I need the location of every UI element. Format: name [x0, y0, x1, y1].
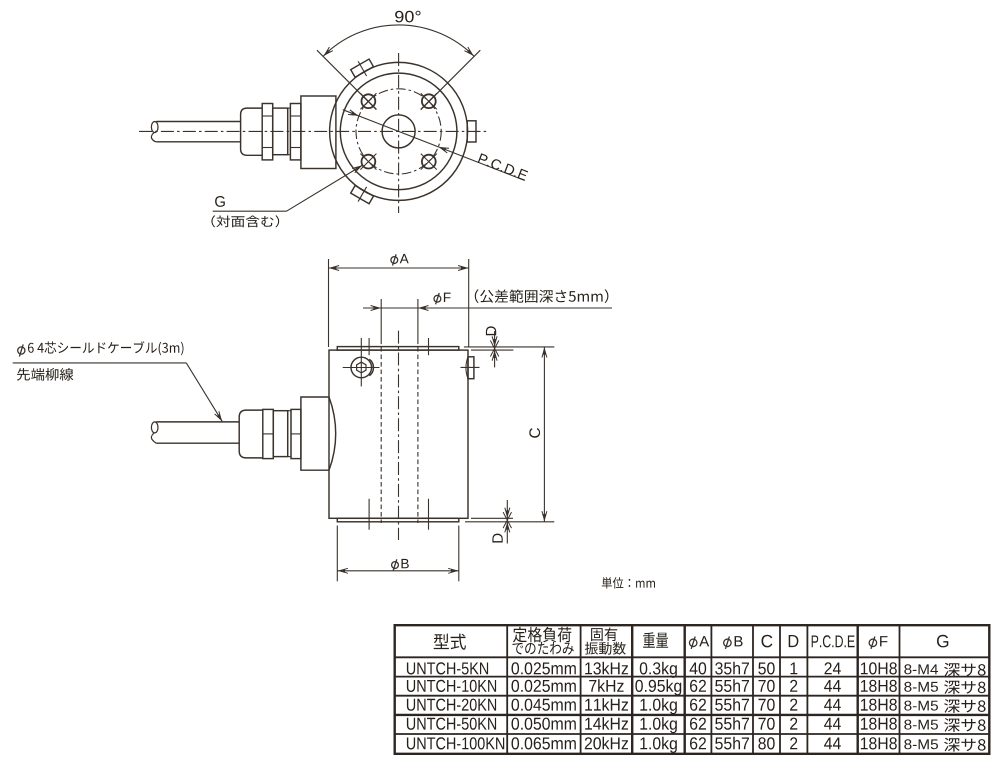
- bolt hole B3: [362, 155, 376, 169]
- dim C arrowheads: [542, 347, 546, 355]
- dim D top vertical line: [494, 331, 496, 347]
- right rim tab: [467, 121, 476, 142]
- screw hex socket: [357, 362, 366, 373]
- cable label leader: [13, 362, 187, 364]
- gland sleeve (side view): [273, 411, 287, 457]
- dim phiA line: [329, 267, 469, 269]
- gland hex nut B (top view): [290, 104, 301, 160]
- gland ring (top view): [288, 108, 291, 155]
- gland boss (top view): [301, 96, 336, 169]
- screw crosshairs: [343, 367, 380, 369]
- rim tab at 120 deg: [349, 56, 376, 81]
- side view of load cell: [13, 254, 655, 589]
- table row UNTCH-10KN: [407, 680, 496, 692]
- label C: [529, 428, 540, 438]
- gland hex nut A (side view): [263, 409, 274, 458]
- dim phiB extension lines: [336, 526, 338, 582]
- label (taimen fukumu): [211, 215, 279, 227]
- P.C.D.E arrowhead upper-left (points inward): [351, 111, 359, 116]
- label P.C.D.E: [478, 153, 529, 181]
- label sentan (bare wire ends): [17, 368, 74, 381]
- bolt hole tick marks top: [368, 338, 370, 355]
- cable broken end (top view): [151, 122, 158, 133]
- dim C line: [543, 347, 545, 522]
- table row UNTCH-50KN: [407, 718, 496, 730]
- rim tab at 240 deg: [349, 182, 376, 207]
- specification table: [394, 625, 991, 754]
- P.C.D.E arrowhead lower-right (points inward): [438, 147, 446, 152]
- 90deg dimension line left (through upper-left bolt): [317, 50, 377, 109]
- gland hex nut B (side view): [291, 409, 301, 458]
- bolt hole B2: [422, 94, 436, 108]
- cap screw head: [351, 357, 372, 378]
- dim D bottom extension lines: [471, 517, 513, 519]
- table headers: [434, 634, 466, 650]
- top view: flange face of load cell: [139, 11, 528, 228]
- note unit mm: [602, 577, 655, 589]
- center hole hidden lines: [380, 340, 382, 524]
- vertical centerline: [398, 53, 400, 213]
- label G: [215, 196, 225, 207]
- horizontal centerline: [139, 130, 487, 132]
- arc arrowhead left: [323, 49, 330, 56]
- dim D bottom vertical line: [506, 500, 508, 518]
- label D bottom: [492, 534, 502, 543]
- tab centerline: [461, 366, 480, 368]
- dim phiB arrowheads: [337, 569, 345, 573]
- bottom boss plate: [337, 518, 459, 522]
- dim phiB line: [337, 570, 459, 572]
- label D top: [486, 326, 496, 335]
- table row UNTCH-100KN: [407, 737, 504, 749]
- vertical centerline: [398, 331, 400, 540]
- bolt circle (P.C.D): [356, 89, 441, 174]
- note kousa hani (tolerance range depth 5mm): [475, 289, 609, 303]
- table grid: [394, 625, 396, 754]
- inner rim circle: [340, 73, 457, 190]
- dim phiF line: [363, 307, 612, 309]
- table row UNTCH-5KN: [407, 662, 488, 674]
- label cable spec: [18, 347, 25, 354]
- dim D top extension lines: [464, 346, 554, 348]
- P.C.D.E diameter line: [343, 110, 524, 180]
- label phiF: [434, 295, 441, 302]
- G leader arrowhead: [355, 165, 363, 171]
- G leader line: [213, 210, 287, 212]
- label phiA: [391, 257, 398, 264]
- body cylinder: [329, 350, 468, 518]
- dim phiF arrowheads (pointing inward): [373, 306, 381, 310]
- dim phiF extension lines: [380, 299, 382, 340]
- bolt hole B4: [422, 155, 436, 169]
- dim phiA arrowheads: [329, 266, 337, 270]
- label 90deg: [395, 11, 421, 23]
- dim D bottom arrowheads: [505, 511, 509, 519]
- cable broken end (side view): [151, 422, 158, 433]
- table row UNTCH-20KN: [407, 699, 496, 711]
- bolt hole tick marks bottom: [368, 499, 370, 530]
- cable leader arrowhead: [217, 414, 223, 422]
- top boss plate: [337, 347, 459, 351]
- 90deg dimension line right (through upper-right bolt): [421, 50, 481, 109]
- center hole: [382, 115, 415, 148]
- cable (side view): [156, 421, 239, 423]
- gland sleeve (top view): [273, 108, 288, 155]
- arc arrowhead right: [467, 49, 474, 56]
- gland ring (side view): [288, 411, 291, 457]
- dim D top arrowheads: [493, 339, 497, 347]
- gland cap (top view): [241, 108, 263, 155]
- dim phiA extension lines: [328, 259, 330, 347]
- label phiB: [392, 562, 399, 569]
- tab intersection arc: [466, 357, 468, 379]
- cable (top view): [156, 121, 240, 123]
- gland boss (side view): [301, 397, 329, 470]
- outer flange circle: [330, 62, 468, 200]
- gland hex nut A (top view): [262, 104, 273, 160]
- bolt hole B1: [362, 94, 376, 108]
- 90deg dimension arc: [323, 25, 474, 56]
- right side tab: [468, 357, 474, 379]
- gland boss intersection arc: [329, 397, 336, 470]
- gland cap (side view): [239, 410, 263, 458]
